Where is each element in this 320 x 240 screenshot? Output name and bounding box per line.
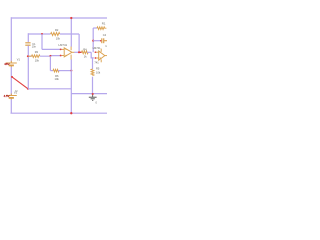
wire box top edge left [28,33,50,35]
wire U2 minus feed vertical [92,28,94,52]
svg-text:R4: R4 [83,48,87,52]
junction dot ground [92,93,94,95]
wire V- continues to bottom rail [70,71,72,114]
pin dot U1 minus [60,49,62,51]
svg-text:10k: 10k [35,58,40,62]
svg-text:741: 741 [94,60,99,64]
wire box bottom edge right to + input [40,55,62,58]
svg-text:0: 0 [96,102,98,105]
wire R5 to ground rail [92,77,94,94]
capacitor C1 plates [25,43,30,45]
wire U1 output [74,51,78,53]
wire inverting input horizontal [42,48,62,50]
wire box top edge right [60,33,79,35]
op-amp U2 triangle [95,49,107,63]
svg-text:10n: 10n [32,46,37,49]
wire cap branch horizontal [93,40,101,42]
svg-text:R3: R3 [35,50,39,54]
svg-text:1u: 1u [105,44,107,48]
ground symbol [89,95,97,101]
resistor R6 zigzag [53,69,59,72]
switch end junction dot [27,88,29,90]
junction dot top rail [70,17,72,19]
junction dot plus wire [49,55,51,57]
capacitor C4 plates [102,38,107,43]
pin dot U2 plus [95,57,97,59]
battery V1 [6,61,17,67]
wire bottom rail [11,112,108,114]
resistor R2 zigzag [51,33,60,36]
wire left rail upper [10,17,12,61]
pin dot U1 plus [60,55,62,57]
wire U1 V+ from top rail [70,18,72,47]
junction dot cap branch [92,40,94,42]
junction dot output node [78,51,80,53]
resistor R3 zigzag [28,55,40,58]
svg-text:S1: S1 [15,91,18,93]
wire jumper right segment [58,70,71,72]
wire to R1 [93,27,97,29]
svg-text:C4: C4 [103,33,107,37]
svg-text:10k: 10k [56,36,61,40]
junction dot node A [41,33,43,35]
junction dot bottom rail [70,112,72,114]
wire top rail [11,17,107,19]
wire box left edge lower [27,46,29,57]
wire ground rail [71,93,107,95]
wire output red segment [78,51,81,53]
svg-text:48V: 48V [4,62,9,66]
resistor R4 zigzag [82,51,88,54]
wire switch output horizontal [28,88,71,90]
wire R4 to jog [87,51,91,53]
svg-text:V1: V1 [17,57,21,61]
wire U1 V- down [70,59,72,70]
wire inverting input drop [41,34,43,49]
switch pivot dot [11,76,13,78]
svg-text:R5: R5 [96,67,100,71]
svg-text:LM741: LM741 [93,46,101,50]
wire left rail lower [10,99,12,113]
op-amp U1 triangle [62,46,75,59]
wire left rail middle [10,67,12,95]
wire box bottom edge left [28,55,31,57]
junction dot box bottom [27,55,29,57]
wire plus chain down [92,58,94,69]
battery V2 [6,94,17,100]
wire jog down to plus input [91,52,94,58]
wire box left continues down to switch node [27,56,29,88]
svg-text:10k: 10k [55,77,60,81]
resistor R1 zigzag [97,27,106,30]
wire feedback drop to output node [78,34,80,52]
svg-text:1k: 1k [84,55,87,59]
wire jumper left segment [50,70,53,72]
junction dot jumper [70,70,72,72]
resistor R5 vertical zigzag [91,69,94,76]
wire box left edge upper (to capacitor C1) [27,33,29,42]
svg-text:R1: R1 [102,22,106,26]
svg-text:LM741: LM741 [59,43,68,47]
pin dot U2 minus [95,51,97,53]
switch S1 blade [12,77,28,89]
svg-text:10k: 10k [96,71,101,75]
wire drop from plus node [49,56,51,70]
svg-text:4.5V: 4.5V [4,94,10,98]
pin dot C4 left [100,40,102,42]
svg-text:R2: R2 [55,28,59,32]
